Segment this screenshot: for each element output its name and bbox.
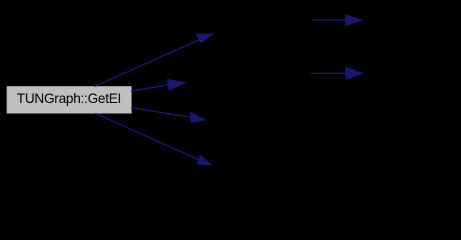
edge arrow 5 (middle node to right node, top) [312, 15, 362, 26]
edge arrow 6 (middle node to right node, bottom) [311, 67, 362, 79]
svg-text:TUNGraph::GetEI: TUNGraph::GetEI [17, 91, 121, 106]
edge arrow 3 (box right to lower node) [131, 108, 205, 123]
node TUNGraph::GetEI [7, 86, 132, 113]
edge arrow 4 (box bottom to bottom node) [95, 113, 211, 165]
edge arrow 2 (box right to node) [131, 79, 185, 91]
edge arrow 1 (box top to upper-right node) [95, 34, 214, 86]
